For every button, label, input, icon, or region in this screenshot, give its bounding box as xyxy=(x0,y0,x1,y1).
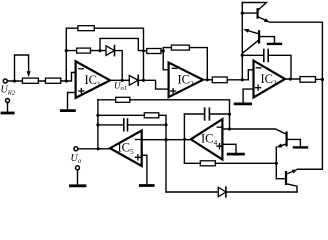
transistor Q1 collector xyxy=(242,3,266,10)
ground of IC1 plus input xyxy=(68,93,76,110)
wire Uo to IC5 xyxy=(78,148,110,150)
op-amp IC2 xyxy=(169,63,203,98)
IC2 plus sign xyxy=(171,89,176,94)
ground of IC4 plus input xyxy=(222,144,236,153)
op-amp IC4 xyxy=(191,119,223,159)
terminal U_R2 xyxy=(3,79,7,83)
svg-text:Uo: Uo xyxy=(71,153,82,165)
transistor Q2 base wire to ground xyxy=(259,37,274,43)
diode D3 xyxy=(218,187,226,196)
Q2 emitter arrow xyxy=(243,29,249,33)
wire vertical x166 xyxy=(159,115,166,192)
svg-text:UR2: UR2 xyxy=(1,85,16,97)
node C3 left junction xyxy=(241,54,244,57)
node input junction xyxy=(13,79,16,82)
IC4 minus sign xyxy=(217,126,222,128)
transistor Q4 base wire xyxy=(276,178,285,180)
wire loop over D1 xyxy=(100,38,144,50)
wire IC2 minus vertical and input xyxy=(163,48,168,70)
grounded terminal below Uo xyxy=(76,166,80,170)
wire second feedback row xyxy=(66,50,106,52)
node x166 cap junction xyxy=(164,123,167,126)
IC3 plus sign xyxy=(256,85,261,90)
node Uo line junction xyxy=(97,147,100,150)
Q4 emitter arrow xyxy=(292,170,298,174)
node R3 right junction xyxy=(162,49,165,52)
wire Q1 emitter to right rail xyxy=(270,21,323,23)
potentiometer wiper arrow xyxy=(27,71,31,77)
transistor Q1 base bar xyxy=(257,9,259,17)
wire IC3 node vertical xyxy=(241,3,243,80)
IC1 plus sign xyxy=(79,89,84,94)
transistor Q4 collector xyxy=(286,184,297,192)
wire Q3 emitter down xyxy=(275,147,277,179)
IC5 minus sign xyxy=(136,139,141,141)
transistor Q3 base wire to ground xyxy=(287,139,301,146)
Q1 emitter arrow xyxy=(264,18,270,22)
wire to R3 xyxy=(144,50,147,52)
wire right rail xyxy=(297,22,322,169)
wire top feedback to node A xyxy=(94,28,143,80)
wire feedback top left vertical xyxy=(66,28,78,81)
transistor Q3 emitter xyxy=(281,144,286,146)
resistor R3 xyxy=(147,49,161,54)
potentiometer RP body xyxy=(22,78,38,83)
resistor R4 xyxy=(212,77,227,83)
terminal Uo xyxy=(74,147,78,151)
wire bottom resistor row xyxy=(184,162,276,164)
resistor Rf1 top feedback xyxy=(78,26,94,31)
wire R5 to right rail xyxy=(316,78,323,80)
node right rail junction xyxy=(321,78,324,81)
node D1 cathode at output xyxy=(121,79,124,82)
IC5 plus sign xyxy=(135,155,140,160)
transistor Q4 base bar xyxy=(285,172,287,184)
wire bottom line xyxy=(167,191,298,193)
wire IC5 minus line xyxy=(142,139,191,141)
capacitor C1 row3 xyxy=(98,124,124,126)
transistor Q3 base bar xyxy=(286,133,288,146)
op-amp IC3 xyxy=(254,61,286,98)
wire vertical x98 xyxy=(97,100,99,149)
node bottom resistor junction xyxy=(275,162,278,165)
node x98 row2 junction xyxy=(96,114,99,117)
capacitor C3 xyxy=(242,54,263,56)
node A junction xyxy=(142,79,145,82)
wire potentiometer wiper loop xyxy=(15,55,29,81)
diode D2 xyxy=(129,76,138,86)
wire IC1 output line xyxy=(110,79,129,81)
transistor Q4 emitter xyxy=(286,171,293,174)
ground of IC5 plus input xyxy=(142,155,147,184)
op-amp IC5 xyxy=(110,131,142,167)
wire row2 xyxy=(98,114,144,116)
ground bar xyxy=(2,112,13,115)
wire Q4 emitter to right rail xyxy=(297,168,322,170)
wire row1 bus xyxy=(98,100,230,129)
wire IC4 feedback vertical xyxy=(183,114,185,163)
node B junction xyxy=(98,49,101,52)
resistor R5 xyxy=(300,77,316,83)
node x66 y50 junction xyxy=(65,49,68,52)
wire R3 to IC2 minus node xyxy=(161,50,163,52)
wire IC2 feedback row xyxy=(163,48,207,80)
node bus cap crossing xyxy=(228,113,231,116)
grounded terminal below U_R2 xyxy=(6,99,10,103)
wire IC4 minus line to Q3 xyxy=(222,129,286,134)
IC4 plus sign xyxy=(217,144,222,149)
transistor Q2 emitter xyxy=(249,31,259,34)
transistor Q2 base bar xyxy=(258,31,260,42)
wire D1 cathode down to output xyxy=(115,51,123,81)
node IC3 output junction xyxy=(289,77,292,80)
IC3 minus sign xyxy=(256,67,261,69)
IC1 minus sign xyxy=(79,68,84,70)
capacitor C2 xyxy=(184,113,204,115)
IC2 minus sign xyxy=(172,67,177,69)
wire input line xyxy=(7,73,75,82)
wire IC3 output xyxy=(285,78,300,80)
resistor R7 row2 xyxy=(144,113,159,118)
node at x66 input xyxy=(65,79,68,82)
op-amp IC1 xyxy=(76,61,110,98)
node A y50 junction xyxy=(142,49,145,52)
transistor Q1 emitter xyxy=(258,17,265,20)
node IC3 input junction xyxy=(241,78,244,81)
resistor Rf2 IC2 feedback xyxy=(171,45,189,50)
node IC4 output junction xyxy=(183,138,186,141)
resistor R8 xyxy=(200,161,215,166)
node x98 cap junction xyxy=(96,123,99,126)
wire IC2 output xyxy=(203,79,212,81)
wire R4 to IC3 minus xyxy=(227,70,253,80)
node x166 minus junction xyxy=(164,138,167,141)
node Q1 base junction xyxy=(241,12,244,15)
resistor R1 xyxy=(45,78,60,83)
ground of IC3 plus input xyxy=(243,89,253,103)
Q3 emitter arrow xyxy=(276,144,282,148)
resistor R2 xyxy=(77,48,91,53)
wire D2 cathode to node A xyxy=(138,79,143,81)
svg-text:Uo1: Uo1 xyxy=(114,80,127,92)
wire node A to IC2 plus input xyxy=(144,80,169,89)
transistor Q1 base wire xyxy=(242,12,257,14)
node IC4 minus junction xyxy=(228,127,231,130)
transistor Q2 collector xyxy=(242,40,259,54)
node IC2 output junction xyxy=(206,78,209,81)
resistor R6 row1 xyxy=(116,97,130,102)
diode D1 xyxy=(106,46,115,56)
